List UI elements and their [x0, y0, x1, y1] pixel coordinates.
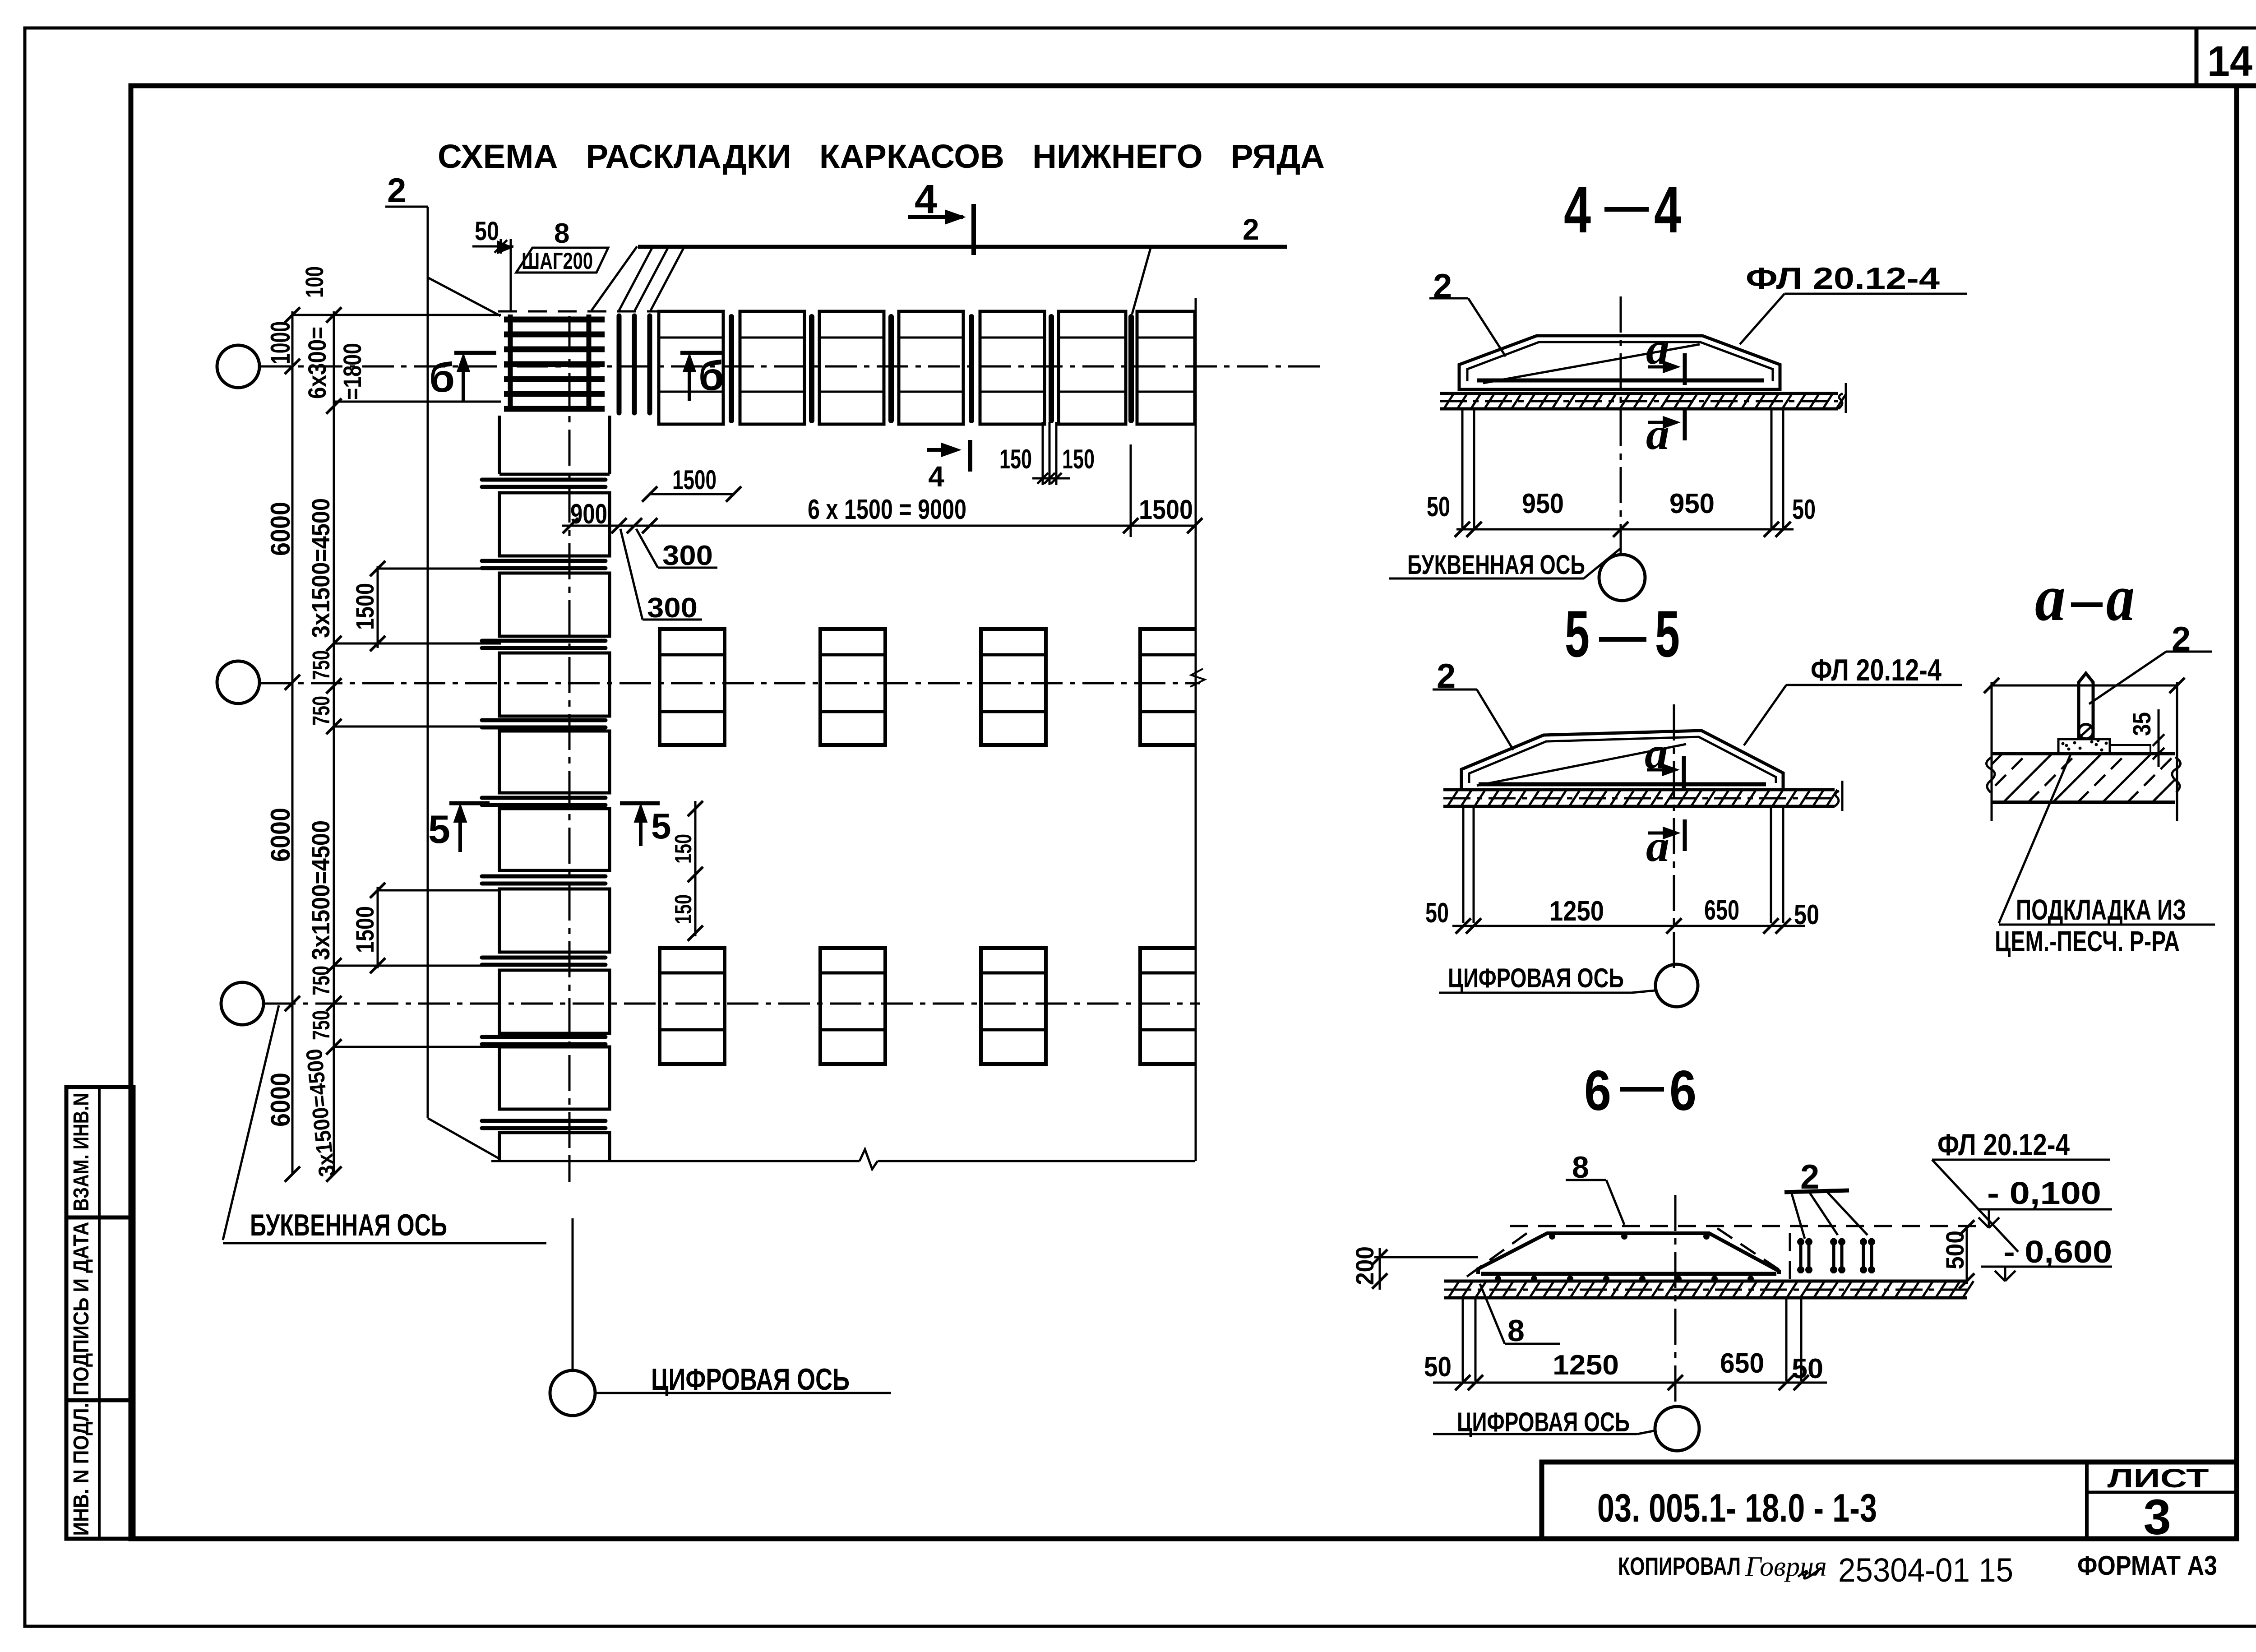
svg-text:1500: 1500 [351, 583, 379, 630]
ШАГ200 parallelogram callout [516, 248, 608, 273]
svg-text:ИНВ. N ПОДЛ.: ИНВ. N ПОДЛ. [69, 1403, 93, 1536]
svg-text:БУКВЕННАЯ ОСЬ: БУКВЕННАЯ ОСЬ [1407, 550, 1585, 580]
svg-text:50: 50 [1792, 1353, 1823, 1384]
leader to ПОДКЛАДКА text [1999, 754, 2071, 923]
svg-text:ЛИСТ: ЛИСТ [2108, 1464, 2209, 1493]
svg-text:35: 35 [2127, 712, 2156, 736]
svg-text:150: 150 [999, 444, 1032, 474]
dim line 1500 small [650, 493, 734, 495]
dim line 6-6 [1433, 1382, 1827, 1384]
three single frame bars after ladder [617, 316, 622, 413]
middle row slab rect [981, 629, 1046, 745]
svg-text:ФЛ 20.12-4: ФЛ 20.12-4 [1937, 1128, 2070, 1162]
svg-text:650: 650 [1720, 1348, 1764, 1379]
svg-text:3х1500=4500: 3х1500=4500 [306, 820, 335, 960]
ground strip 6-6 [1444, 1280, 1967, 1283]
svg-text:ПОДПИСЬ И ДАТА: ПОДПИСЬ И ДАТА [69, 1222, 93, 1396]
svg-text:1000: 1000 [265, 321, 296, 364]
tick on chain B [326, 307, 342, 323]
svg-text:ЦИФРОВАЯ ОСЬ: ЦИФРОВАЯ ОСЬ [1448, 963, 1624, 993]
axis circle 5-5 [1655, 964, 1698, 1007]
column slab rect [499, 493, 610, 556]
svg-text:50: 50 [1792, 494, 1816, 525]
svg-text:100: 100 [300, 266, 328, 298]
svg-text:4: 4 [1654, 173, 1681, 246]
svg-text:6 х 1500 = 9000: 6 х 1500 = 9000 [808, 494, 966, 525]
tick on chain A [285, 675, 300, 690]
leader diagonal to ladder corner [428, 278, 500, 316]
axis circle bottom [550, 1370, 595, 1416]
title block box [1542, 1462, 2237, 1539]
svg-text:a: a [2106, 561, 2135, 635]
svg-text:6: 6 [1584, 1060, 1611, 1122]
column slab partial top [499, 416, 610, 474]
dim 200 left of 6-6 [1379, 1248, 1381, 1290]
column slab rect [499, 573, 610, 636]
svg-text:5: 5 [1565, 597, 1590, 671]
break squiggle left a-a [1986, 757, 1995, 792]
dimension chain line A vertical [291, 311, 294, 1174]
150 dim extension lines [1042, 422, 1044, 485]
svg-text:1500: 1500 [672, 465, 717, 495]
dimension chain line B vertical [333, 311, 335, 1174]
centerline 4-4 [1620, 296, 1622, 554]
svg-text:1500: 1500 [351, 906, 379, 953]
diagonal from axis C to label [223, 1005, 279, 1240]
svg-text:2: 2 [387, 171, 406, 210]
column slab rect [499, 970, 610, 1033]
foundation slab trapezoid 4-4 outer [1459, 336, 1780, 389]
tick on chain B [326, 1166, 342, 1182]
tick on chain A [285, 307, 300, 323]
svg-text:50: 50 [475, 217, 499, 246]
ground bottom line a-a [1992, 801, 2175, 804]
top row slab rect [980, 311, 1045, 424]
axis circle 6-6 [1655, 1407, 1699, 1451]
tick on chain B [326, 636, 342, 651]
centerline 6-6 [1674, 1195, 1677, 1407]
svg-text:500: 500 [1941, 1231, 1969, 1269]
rebar circle a-a [2079, 724, 2093, 739]
svg-text:КОПИРОВАЛ: КОПИРОВАЛ [1618, 1552, 1741, 1580]
svg-text:650: 650 [1704, 895, 1739, 926]
svg-text:900: 900 [570, 499, 607, 530]
svg-text:ФЛ 20.12-4: ФЛ 20.12-4 [1811, 653, 1942, 687]
ground strip 5-5 [1443, 788, 1835, 791]
vertical leader line 2 right side [1195, 298, 1197, 1161]
column slab rect [499, 809, 610, 870]
svg-text:50: 50 [1425, 898, 1449, 929]
middle row slab rect [1140, 629, 1195, 745]
svg-text:750: 750 [308, 1010, 335, 1040]
column slab rect [499, 889, 610, 952]
trapezoid 4-4 inner diagonal [1483, 344, 1700, 383]
svg-text:БУКВЕННАЯ ОСЬ: БУКВЕННАЯ ОСЬ [250, 1208, 447, 1242]
dimension chain line C lower segment [377, 887, 379, 968]
axis circle C [221, 982, 264, 1025]
trapezoid 6-6 thick bottom line with rebar dots [1481, 1272, 1776, 1276]
tick on chain B [326, 996, 342, 1011]
tick on chain B [326, 678, 342, 694]
foundation slab trapezoid 5-5 outer [1461, 731, 1783, 790]
svg-text:6000: 6000 [265, 502, 296, 556]
svg-text:750: 750 [308, 650, 335, 680]
dashed outline around slab 6-6 [1510, 1225, 1981, 1227]
column slab rect [499, 653, 610, 716]
tick on chain B [326, 398, 342, 414]
stamp column table [66, 1087, 134, 1539]
svg-text:25304-01 15: 25304-01 15 [1838, 1551, 2013, 1589]
break squiggle right a-a [2172, 757, 2181, 792]
extension line at 2506 [1130, 444, 1132, 537]
centerline 5-5 [1673, 704, 1675, 975]
trapezoid 5-5 inner diagonal [1477, 744, 1686, 786]
svg-text:- 0,600: - 0,600 [2003, 1234, 2112, 1269]
svg-text:3х1500=4500: 3х1500=4500 [306, 498, 335, 638]
break mark on leader at middle row [1190, 669, 1205, 687]
trapezoid 4-4 thick bottom line [1477, 379, 1764, 383]
svg-text:6: 6 [1669, 1060, 1697, 1122]
svg-text:a: a [1646, 409, 1669, 459]
svg-text:=1800: =1800 [338, 343, 366, 400]
svg-text:5: 5 [428, 807, 450, 851]
dimension chain line C upper segment [377, 566, 379, 648]
svg-text:150: 150 [1062, 444, 1095, 474]
extension verticals below 6-6 [1462, 1298, 1464, 1381]
extension verticals of a-a [1991, 682, 1993, 821]
ladder frame right rail [587, 315, 592, 412]
extension lines from plan to chains [292, 314, 501, 316]
vertical 150 dims right of column [694, 801, 697, 936]
svg-text:5: 5 [1655, 597, 1680, 671]
axis circle 4-4 [1599, 555, 1645, 601]
top dim line a-a [1992, 685, 2177, 687]
middle row slab rect [660, 629, 725, 745]
bedding pad stippled a-a [2058, 739, 2110, 754]
svg-text:6х300=: 6х300= [303, 327, 331, 399]
svg-text:50: 50 [1427, 491, 1450, 523]
section marker b right [680, 351, 723, 355]
svg-text:ЦИФРОВАЯ ОСЬ: ЦИФРОВАЯ ОСЬ [1457, 1407, 1630, 1437]
double frame bars between column slabs [482, 478, 606, 482]
sheet number box 14 top-right [2195, 28, 2199, 86]
axis circle A [217, 345, 259, 388]
svg-text:б: б [698, 353, 724, 399]
svg-text:50: 50 [1794, 899, 1819, 930]
svg-text:5: 5 [651, 806, 671, 846]
svg-text:950: 950 [1522, 488, 1564, 519]
svg-text:4: 4 [1564, 173, 1591, 246]
pad step right a-a [2110, 745, 2150, 754]
section marker 5 right [620, 801, 660, 805]
svg-text:Говрия: Говрия [1745, 1551, 1827, 1582]
svg-text:- 0,100: - 0,100 [1987, 1175, 2101, 1211]
tick on chain B [326, 719, 342, 734]
top row slab rect [899, 311, 963, 424]
tick on chain A [285, 996, 300, 1011]
ladder rungs [504, 317, 605, 323]
break mark right end 4-4 [1838, 393, 1843, 409]
svg-text:750: 750 [308, 966, 335, 995]
dim line 5-5 [1452, 925, 1805, 927]
top row slab rect [1137, 311, 1195, 424]
dim line 4-4 [1456, 528, 1794, 531]
break mark right end 5-5 [1835, 791, 1839, 806]
svg-text:14: 14 [2207, 37, 2252, 85]
middle row slab rect [660, 948, 725, 1064]
svg-text:950: 950 [1669, 488, 1715, 519]
extension verticals below 4-4 [1461, 409, 1464, 528]
svg-text:СХЕМА РАСКЛАДКИ КАРКАСОВ: СХЕМА РАСКЛАДКИ КАРКАСОВ НИЖНЕГО РЯДА [438, 138, 1325, 175]
foundation slab trapezoid 6-6 outer [1478, 1233, 1779, 1274]
svg-text:ПОДКЛАДКА ИЗ: ПОДКЛАДКА ИЗ [2016, 893, 2186, 926]
rebar frames in section 6-6 [1799, 1238, 1803, 1273]
svg-text:ЦЕМ.-ПЕСЧ. Р-РА: ЦЕМ.-ПЕСЧ. Р-РА [1995, 925, 2180, 958]
middle row slab rect [820, 629, 885, 745]
axis circle B [217, 661, 259, 703]
svg-text:6000: 6000 [265, 808, 296, 862]
extension verticals below 5-5 [1462, 806, 1465, 923]
svg-text:1250: 1250 [1553, 1350, 1619, 1381]
svg-text:ЦИФРОВАЯ ОСЬ: ЦИФРОВАЯ ОСЬ [651, 1362, 850, 1397]
plan bottom boundary line [491, 1160, 860, 1162]
column slab rect [499, 731, 610, 793]
svg-text:a: a [2035, 561, 2066, 635]
svg-text:4: 4 [928, 460, 944, 493]
vertical dim 500 [1966, 1225, 1968, 1284]
leader diagonal to column bottom corner [428, 1118, 499, 1159]
top row slab rect [1059, 311, 1126, 424]
ground strip 4-4 [1440, 392, 1838, 395]
top row slab rect [819, 311, 884, 424]
leader line D vertical [427, 207, 429, 1118]
svg-text:750: 750 [308, 696, 335, 726]
svg-text:200: 200 [1350, 1246, 1379, 1285]
trapezoid 4-4 inner line [1467, 342, 1773, 381]
axis line B horizontal dash-dot [259, 682, 1200, 685]
svg-text:б: б [429, 355, 455, 401]
svg-text:150: 150 [670, 894, 697, 924]
leader branch to bar before last slab [1132, 248, 1151, 314]
svg-text:ФОРМАТ А3: ФОРМАТ А3 [2077, 1550, 2217, 1581]
svg-text:ШАГ200: ШАГ200 [522, 248, 593, 274]
top row slab rect [740, 311, 804, 424]
axis line C horizontal dash-dot [264, 1003, 1200, 1005]
middle row slab rect [981, 948, 1046, 1064]
trapezoid 5-5 inner line [1469, 737, 1776, 783]
top row slab rect [659, 311, 723, 424]
svg-text:ФЛ 20.12-4: ФЛ 20.12-4 [1746, 261, 1940, 296]
frame bar cross-section a-a [2079, 673, 2093, 740]
tick on chain A [285, 1166, 300, 1182]
dim line 900-9000-1500 [562, 525, 1195, 527]
middle row slab rect [820, 948, 885, 1064]
horizontal leader line for label 2 top [638, 245, 1287, 249]
svg-text:50: 50 [1424, 1351, 1452, 1383]
svg-text:03. 005.1- 18.0 - 1-3: 03. 005.1- 18.0 - 1-3 [1597, 1485, 1877, 1530]
ladder frame left rail [508, 315, 513, 412]
column centerline dash-dot [569, 316, 571, 1161]
middle row slab rect [1140, 948, 1195, 1064]
svg-text:2: 2 [1243, 213, 1259, 246]
fan leaders from 2-line to frame bars [592, 246, 637, 310]
svg-text:6000: 6000 [265, 1073, 296, 1127]
svg-text:2: 2 [1433, 267, 1452, 305]
column slab rect [499, 1133, 610, 1161]
column slab rect [499, 1047, 610, 1109]
single bars between top row slabs [729, 317, 734, 421]
trapezoid 5-5 thick bottom line [1479, 782, 1766, 787]
svg-text:3: 3 [2143, 1490, 2171, 1545]
ledge line left of trapezoid 6-6 [1374, 1256, 1478, 1259]
centerline down to bottom circle [569, 1161, 571, 1182]
svg-text:ВЗАМ. ИНВ.N: ВЗАМ. ИНВ.N [69, 1093, 93, 1211]
axis line A horizontal dash-dot [259, 366, 1327, 368]
tick on chain A [285, 359, 300, 374]
dashed top line of plan [498, 310, 659, 313]
svg-text:1500: 1500 [1139, 495, 1193, 525]
dim 35 a-a [2158, 709, 2160, 767]
svg-text:150: 150 [670, 834, 697, 864]
tick on chain B [326, 1039, 342, 1055]
svg-text:8: 8 [554, 218, 569, 249]
slab bottom line a-a [1992, 752, 2175, 755]
svg-text:1250: 1250 [1549, 896, 1604, 927]
tick on chain B [326, 958, 342, 973]
